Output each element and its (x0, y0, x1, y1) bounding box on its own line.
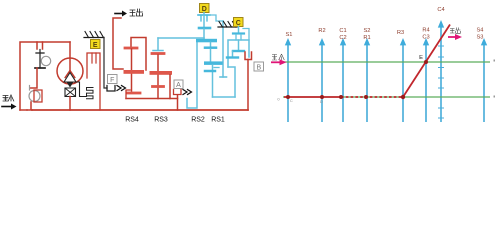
svg-text:S2: S2 (364, 28, 371, 34)
planetary RS3 sun plate (153, 50, 163, 52)
planetary RS2 carrier tick (214, 67, 219, 69)
planetary RS1 link stem (232, 51, 234, 58)
planetary RS2 top bar (196, 39, 217, 43)
output speed arrow (448, 34, 462, 40)
wire A stem (177, 95, 179, 110)
wire blue top rail (158, 37, 204, 39)
wire F stub (126, 90, 130, 99)
node axis C4 (438, 20, 444, 122)
brake C tag (234, 18, 244, 27)
planetary RS4 ring bracket (131, 38, 146, 71)
svg-text:F: F (110, 77, 114, 84)
gear G2 key (29, 86, 31, 91)
input speed arrow (271, 59, 287, 65)
value label output (shu-chu) (130, 9, 143, 16)
node axis R4 C3 (423, 38, 429, 122)
brake C pack (233, 27, 244, 41)
wire sun shaft RS1 (222, 21, 224, 77)
wire B stem (247, 60, 249, 111)
damper spring (87, 88, 94, 99)
wire bottom rail left stub (20, 109, 27, 111)
wire bottom rail (32, 109, 248, 111)
wire stator to rail (69, 97, 71, 111)
torque converter housing (57, 58, 83, 84)
one-way clutch box (65, 88, 76, 97)
dog clutch F arrows (117, 86, 126, 91)
tick mark right one (494, 60, 496, 62)
svg-text:R1: R1 (363, 35, 370, 41)
dog clutch A arrows (183, 90, 192, 95)
planetary RS1 carrier bar (227, 56, 238, 58)
planetary RS3 carrier bar (150, 71, 173, 75)
one-way clutch arrow (67, 83, 73, 88)
svg-text:D: D (320, 99, 323, 104)
wire gear G2 to rail (27, 102, 32, 110)
svg-text:R2: R2 (318, 28, 325, 34)
wire D to sun RS1 (210, 15, 223, 21)
svg-text:RS4: RS4 (125, 117, 139, 124)
speed line zero (283, 96, 490, 98)
svg-text:B: B (256, 64, 261, 71)
value label input (shu-ru) (3, 95, 14, 101)
planetary RS4 sun bar (125, 47, 137, 50)
planetary RS1 stem (238, 40, 240, 51)
svg-text:C: C (290, 98, 293, 103)
clutch D tag (200, 4, 210, 13)
planetary RS2 shaft (210, 49, 212, 61)
svg-text:C1: C1 (339, 28, 346, 34)
brake B tag (254, 62, 264, 71)
svg-text:C4: C4 (437, 7, 444, 13)
wire C to ring RS1 (243, 29, 249, 41)
node C1C2 dot (339, 95, 343, 99)
node axis R2 (319, 38, 325, 122)
node S2R1 dot (364, 95, 368, 99)
brake B fork (245, 52, 252, 60)
planetary RS3 shaft (157, 55, 159, 99)
node R2 dot (320, 95, 324, 99)
svg-text:RS2: RS2 (191, 117, 205, 124)
dog clutch F tag (108, 75, 118, 84)
sun shaft end plate (220, 76, 227, 78)
ground hatch case (84, 32, 104, 38)
damper clutch plates (37, 42, 43, 49)
planetary RS2 sun bar (205, 46, 216, 49)
stator triangle (64, 73, 76, 83)
wire zero segment dashed (341, 96, 403, 98)
node axis S4 S3 (481, 38, 487, 122)
planetary RS3 sun bar (152, 52, 164, 55)
svg-text:S3: S3 (477, 35, 484, 41)
wire blue cup rail (213, 96, 236, 98)
node axis S2 R1 (364, 38, 370, 122)
brake E pack (87, 53, 100, 110)
svg-text:C3: C3 (422, 35, 429, 41)
planetary RS2 lower stem (212, 65, 214, 97)
value label input lever (shu-ru) (272, 54, 284, 60)
planetary RS3 ring leg (169, 75, 171, 99)
gear G1 (41, 56, 50, 65)
clutch D pack (198, 13, 210, 40)
svg-text:R3: R3 (397, 30, 404, 36)
planetary RS3 lower bar (153, 85, 164, 88)
planetary RS4 lower bar (127, 92, 140, 95)
svg-text:RS3: RS3 (154, 117, 168, 124)
input shaft (35, 50, 45, 69)
dog clutch A sleeve (174, 90, 182, 95)
dog clutch A tag (174, 80, 183, 89)
planetary RS3 sun stem blue (157, 38, 159, 50)
ground hatch C (218, 22, 237, 28)
svg-text:RS1: RS1 (211, 117, 225, 124)
planetary RS2 stem upper (210, 42, 212, 46)
node axis R3 (400, 38, 406, 122)
planetary RS1 ring frame (228, 40, 249, 67)
gear G2 hub (34, 90, 42, 102)
svg-text:C2: C2 (339, 35, 346, 41)
value label output lever (shu-chu) (450, 28, 461, 34)
input arrow (2, 104, 17, 110)
planetary RS1 sun bar (233, 50, 244, 52)
wire output shaft (113, 18, 123, 69)
node axis S1 (285, 38, 291, 122)
tick mark right zero (494, 96, 496, 98)
damper link (76, 82, 87, 97)
planetary RS4 carrier bar (124, 70, 145, 74)
svg-text:S1: S1 (286, 32, 293, 38)
torque converter input stem (65, 42, 75, 78)
wire RS1 carrier riser (228, 67, 235, 97)
node R4C3 dot (424, 60, 428, 64)
node R3 dot (401, 95, 405, 99)
brake E tag (91, 40, 101, 49)
case wall line (104, 38, 107, 89)
speed line one (283, 61, 490, 63)
dog clutch F sleeve (107, 86, 115, 92)
svg-text:E: E (93, 42, 98, 49)
wire blue left shaft (187, 42, 197, 108)
planetary RS2 lower bar (205, 70, 215, 73)
scale ticks C4 (438, 46, 444, 118)
svg-text:A: A (176, 82, 181, 89)
wire input frame left (20, 42, 70, 110)
wire zero segment solid (284, 96, 341, 98)
wire speed diagonal (403, 25, 450, 98)
wire gear link (30, 68, 37, 88)
wire lower rail (126, 98, 178, 100)
svg-text:S4: S4 (477, 28, 484, 34)
output arrow (115, 11, 127, 17)
svg-text:E: E (419, 55, 423, 61)
svg-text:R4: R4 (422, 28, 429, 34)
node axis C1 C2 (340, 38, 346, 122)
planetary RS4 shaft (131, 49, 133, 91)
node S1 dot (286, 95, 290, 99)
planetary RS2 carrier bar (204, 61, 223, 65)
gear G2 (29, 91, 40, 102)
